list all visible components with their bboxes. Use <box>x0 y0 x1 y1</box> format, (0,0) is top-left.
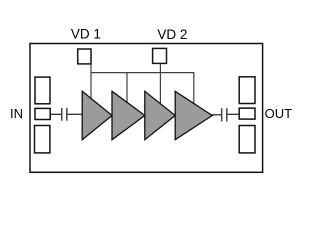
svg-text:IN: IN <box>10 106 23 121</box>
svg-text:VD 2: VD 2 <box>157 27 187 42</box>
svg-text:VD 1: VD 1 <box>71 27 101 42</box>
svg-text:OUT: OUT <box>265 106 293 121</box>
